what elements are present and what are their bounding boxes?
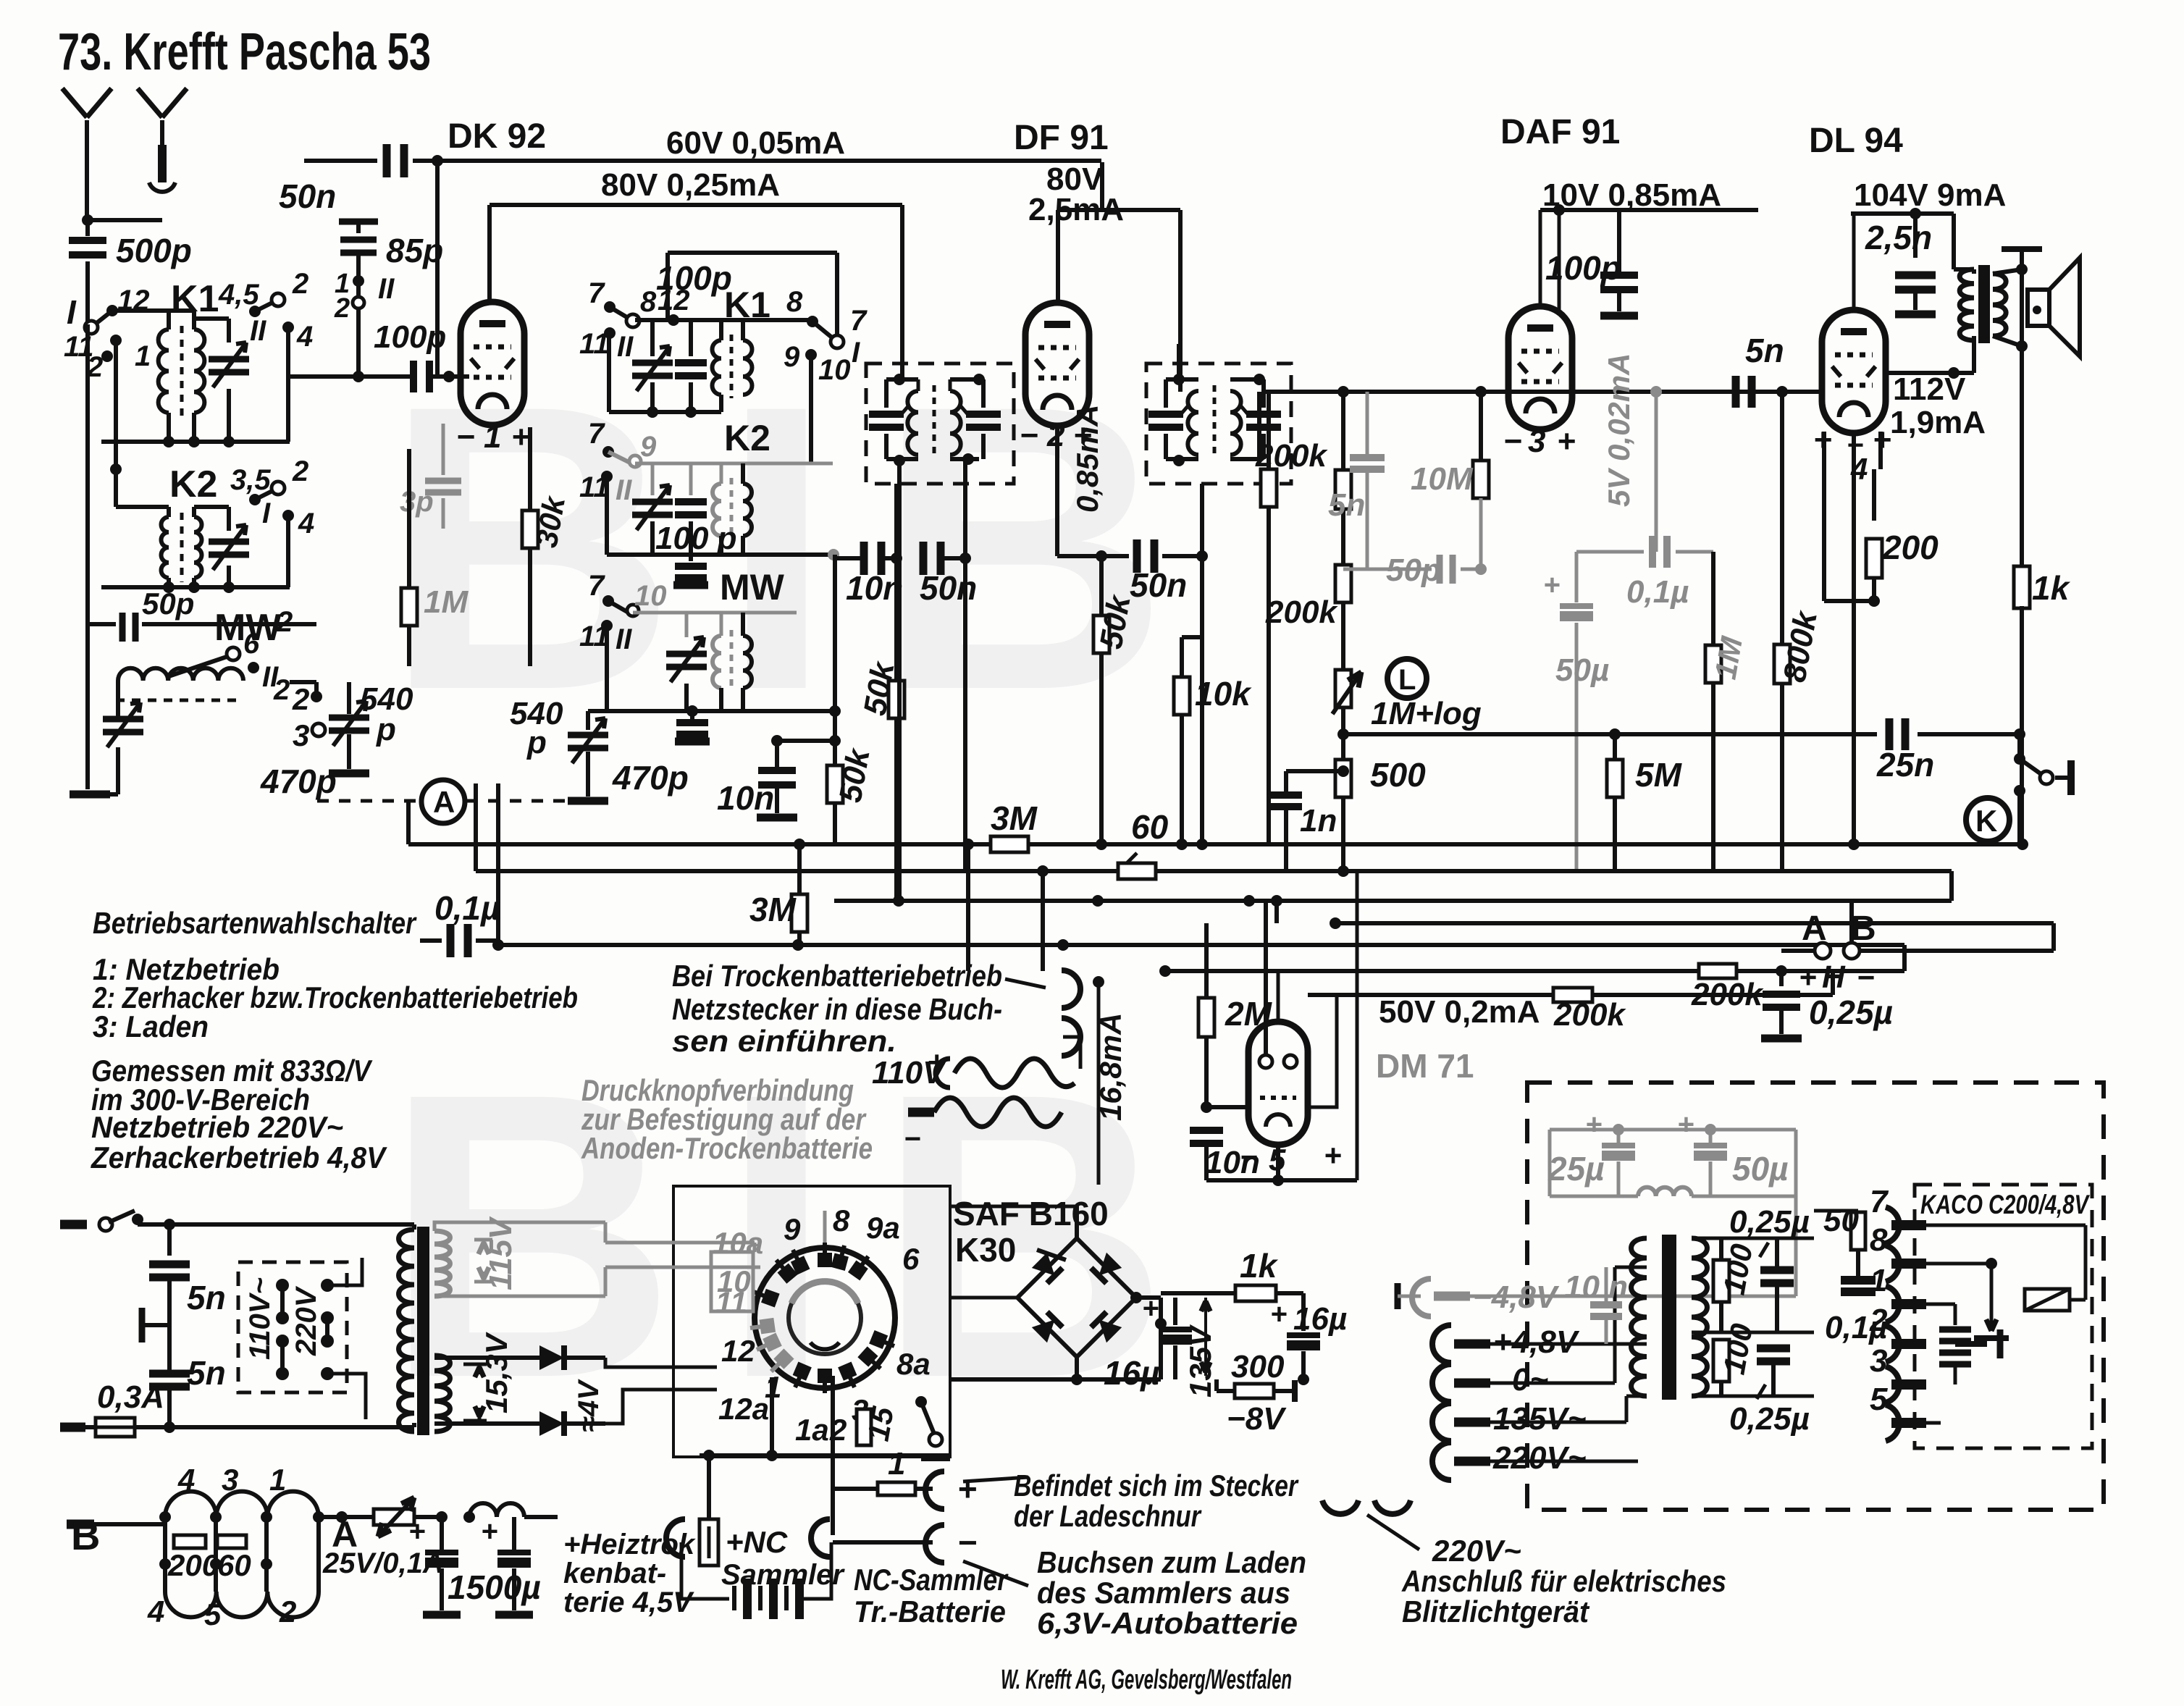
svg-text:Netzstecker in diese Buch-: Netzstecker in diese Buch- [672,992,1002,1026]
svg-text:+: + [408,1516,425,1547]
svg-text:60: 60 [217,1548,251,1582]
svg-text:0,25µ: 0,25µ [1729,1401,1810,1437]
svg-text:9: 9 [784,1212,801,1246]
svg-text:Blitzlichtgerät: Blitzlichtgerät [1402,1594,1590,1629]
svg-text:2: 2 [292,455,308,487]
svg-text:2: 2 [279,1594,296,1629]
svg-text:Sammler: Sammler [721,1559,845,1591]
svg-text:7: 7 [588,418,605,450]
svg-text:Anoden-Trockenbatterie: Anoden-Trockenbatterie [581,1131,873,1165]
svg-text:2: 2 [273,674,290,706]
svg-text:II: II [616,474,632,506]
svg-text:DK 92: DK 92 [448,117,546,156]
svg-text:−: − [1020,418,1038,453]
svg-text:sen einführen.: sen einführen. [672,1024,896,1058]
svg-text:der Ladeschnur: der Ladeschnur [1014,1499,1202,1533]
svg-text:60: 60 [1131,808,1169,846]
svg-text:−: − [1503,424,1522,459]
svg-text:60V 0,05mA: 60V 0,05mA [666,125,845,161]
svg-text:9: 9 [784,341,800,373]
svg-text:3: 3 [1870,1343,1887,1379]
svg-text:5: 5 [204,1597,222,1631]
svg-text:3: 3 [293,718,309,752]
svg-text:50n: 50n [279,177,336,215]
svg-text:4,5: 4,5 [218,279,259,311]
svg-text:25µ: 25µ [1547,1150,1605,1188]
svg-text:0,25µ: 0,25µ [1809,993,1893,1031]
svg-text:8: 8 [1870,1222,1888,1258]
svg-text:2: 2 [292,268,308,300]
svg-text:I: I [262,497,271,529]
svg-text:3p: 3p [400,486,434,518]
svg-text:7: 7 [850,305,868,337]
svg-text:500: 500 [1370,756,1426,794]
svg-text:12a: 12a [718,1392,769,1426]
svg-text:10M: 10M [1411,461,1474,497]
svg-text:+: + [1557,424,1576,459]
svg-text:25n: 25n [1876,746,1934,783]
svg-text:73. Krefft Pascha 53: 73. Krefft Pascha 53 [58,23,431,81]
svg-text:5V 0,02mA: 5V 0,02mA [1602,353,1636,507]
svg-text:1M: 1M [424,584,469,620]
svg-text:0,85mA: 0,85mA [1070,405,1104,513]
svg-text:50n: 50n [1130,566,1187,604]
svg-text:H: H [1822,959,1846,995]
svg-text:+: + [511,419,530,455]
svg-text:16µ: 16µ [1104,1354,1160,1392]
svg-text:+: + [1324,1138,1342,1172]
svg-text:220V: 220V [290,1285,322,1356]
svg-text:0~: 0~ [1512,1362,1548,1398]
svg-text:5n: 5n [187,1279,226,1316]
svg-text:10k: 10k [1195,675,1252,713]
svg-text:8: 8 [833,1203,850,1238]
svg-text:A: A [433,785,455,819]
svg-text:K30: K30 [955,1231,1016,1269]
svg-text:110V~: 110V~ [244,1277,276,1360]
svg-text:NC-Sammler: NC-Sammler [854,1563,1009,1597]
svg-text:0,1µ: 0,1µ [434,889,500,927]
svg-text:p: p [526,725,547,760]
svg-text:200: 200 [1882,529,1939,566]
svg-text:1a: 1a [795,1413,829,1447]
svg-text:0,1µ: 0,1µ [1626,574,1689,610]
svg-text:K: K [1975,804,1997,838]
svg-text:1: 1 [484,419,501,455]
svg-text:7: 7 [588,570,605,602]
svg-text:470p: 470p [260,762,337,800]
svg-text:4: 4 [298,508,314,539]
svg-text:K2: K2 [169,463,217,505]
svg-text:6: 6 [243,628,260,660]
svg-text:300: 300 [1231,1349,1285,1384]
svg-text:I: I [67,293,77,331]
svg-text:7: 7 [1870,1184,1889,1219]
svg-text:Tr.-Batterie: Tr.-Batterie [854,1594,1006,1629]
svg-text:50V 0,2mA: 50V 0,2mA [1379,994,1540,1030]
svg-text:50p: 50p [142,587,194,621]
svg-text:DF 91: DF 91 [1014,119,1109,157]
svg-text:0,1µ: 0,1µ [1825,1310,1888,1345]
svg-text:II: II [616,623,632,655]
svg-text:2,5n: 2,5n [1865,219,1932,256]
svg-text:DM 71: DM 71 [1376,1047,1474,1085]
svg-text:9: 9 [640,431,657,463]
svg-text:50µ: 50µ [1732,1150,1789,1188]
svg-text:8a: 8a [896,1347,931,1381]
svg-text:100p: 100p [1545,249,1621,287]
svg-text:2: 2 [292,682,309,716]
svg-text:Zerhackerbetrieb 4,8V: Zerhackerbetrieb 4,8V [91,1140,387,1175]
svg-text:+: + [1270,1298,1287,1330]
svg-text:+: + [481,1516,497,1547]
svg-text:104V 9mA: 104V 9mA [1854,177,2006,213]
svg-text:L: L [1398,664,1416,696]
svg-text:des Sammlers aus: des Sammlers aus [1037,1576,1290,1610]
svg-text:I: I [852,337,860,369]
svg-text:50: 50 [1823,1203,1859,1238]
svg-text:W. Krefft AG, Gevelsberg/Westf: W. Krefft AG, Gevelsberg/Westfalen [1001,1665,1292,1695]
svg-text:9a: 9a [866,1211,900,1245]
svg-text:1k: 1k [2032,569,2071,607]
svg-text:10 n: 10 n [1564,1269,1628,1305]
svg-text:10n: 10n [1205,1145,1260,1180]
svg-text:II: II [617,331,634,363]
svg-text:3M: 3M [991,799,1038,837]
svg-text:1k: 1k [1240,1247,1279,1285]
svg-text:1: 1 [888,1446,905,1482]
svg-text:0,3A: 0,3A [97,1379,164,1415]
svg-text:6,3V-Autobatterie: 6,3V-Autobatterie [1037,1606,1298,1640]
svg-text:5n: 5n [1328,487,1365,523]
svg-text:II: II [250,315,266,347]
svg-text:0,25µ: 0,25µ [1729,1204,1810,1240]
svg-text:+: + [1543,569,1560,601]
svg-text:80V 0,25mA: 80V 0,25mA [601,167,780,203]
svg-text:8: 8 [640,286,657,318]
svg-text:1: 1 [135,340,151,372]
svg-text:1500µ: 1500µ [448,1568,541,1606]
svg-text:DAF 91: DAF 91 [1500,113,1620,151]
svg-text:11: 11 [715,1285,747,1319]
svg-text:−: − [957,1524,977,1561]
svg-text:+NC: +NC [726,1525,788,1559]
svg-text:B: B [71,1513,100,1558]
svg-text:kenbat-: kenbat- [563,1558,666,1589]
svg-text:1n: 1n [1300,803,1337,839]
svg-text:220V~: 220V~ [1432,1534,1521,1568]
svg-text:Anschluß für elektrisches: Anschluß für elektrisches [1401,1564,1726,1598]
svg-text:Buchsen zum Laden: Buchsen zum Laden [1037,1545,1306,1579]
svg-text:100p: 100p [374,319,446,355]
svg-text:5n: 5n [1745,332,1784,369]
svg-text:8: 8 [786,286,803,318]
svg-text:5: 5 [1870,1382,1888,1417]
svg-text:2: 2 [334,293,350,324]
svg-text:Befindet sich im Stecker: Befindet sich im Stecker [1014,1468,1299,1503]
svg-text:+: + [1585,1109,1602,1140]
svg-text:200k: 200k [1265,594,1338,630]
svg-text:220V~: 220V~ [1492,1440,1586,1476]
svg-text:Bei Trockenbatteriebetrieb: Bei Trockenbatteriebetrieb [672,959,1002,993]
svg-text:6: 6 [902,1242,920,1276]
svg-text:16µ: 16µ [1293,1301,1347,1337]
svg-text:3: Laden: 3: Laden [93,1009,209,1043]
svg-text:500p: 500p [116,232,192,269]
svg-text:10: 10 [818,354,851,386]
svg-text:2,5mA: 2,5mA [1028,192,1124,227]
svg-text:Netzbetrieb 220V~: Netzbetrieb 220V~ [91,1110,343,1144]
svg-text:+: + [1677,1109,1694,1140]
svg-text:2: 2 [276,606,293,638]
svg-text:3,5: 3,5 [230,464,271,496]
svg-text:5M: 5M [1635,756,1683,794]
svg-text:50µ: 50µ [1555,652,1609,688]
svg-text:135V~: 135V~ [1493,1401,1586,1437]
svg-text:10n: 10n [717,779,774,817]
svg-text:K2: K2 [724,418,770,458]
svg-text:12: 12 [658,285,690,316]
svg-text:−8V: −8V [1227,1401,1287,1437]
svg-text:135V: 135V [1183,1324,1217,1398]
svg-text:≈4V: ≈4V [573,1379,605,1432]
svg-text:1M+log: 1M+log [1371,696,1482,731]
svg-text:5n: 5n [187,1354,226,1392]
svg-text:4: 4 [147,1594,164,1629]
svg-text:7: 7 [588,277,605,309]
svg-text:15: 15 [861,1404,901,1444]
svg-text:II: II [378,273,395,305]
svg-text:470p: 470p [612,759,689,797]
svg-text:+: + [1142,1293,1159,1324]
svg-text:50n: 50n [920,569,977,607]
svg-text:10: 10 [634,580,667,612]
svg-text:−: − [904,1123,920,1155]
svg-text:12: 12 [721,1334,755,1368]
svg-text:16,8mA: 16,8mA [1093,1013,1127,1121]
svg-text:85p: 85p [386,232,443,269]
svg-text:SAF B160: SAF B160 [953,1195,1109,1232]
svg-text:−: − [1857,960,1875,994]
svg-text:DL 94: DL 94 [1809,122,1903,160]
svg-text:3: 3 [1528,424,1545,459]
svg-text:4: 4 [296,321,313,353]
svg-text:−: − [456,419,475,455]
svg-text:+: + [957,1470,977,1508]
svg-text:1,9mA: 1,9mA [1890,405,1986,440]
svg-text:p: p [376,712,396,747]
svg-text:MW: MW [720,567,785,608]
svg-text:KACO C200/4,8V: KACO C200/4,8V [1920,1190,2091,1219]
svg-text:3M: 3M [749,891,797,928]
svg-text:10V 0,85mA: 10V 0,85mA [1542,177,1721,213]
svg-text:100 p: 100 p [655,521,737,556]
svg-text:200k: 200k [1553,997,1626,1033]
svg-text:terie 4,5V: terie 4,5V [563,1587,694,1618]
svg-text:Betriebsartenwahlschalter: Betriebsartenwahlschalter [93,906,417,940]
svg-text:+: + [1799,960,1817,994]
